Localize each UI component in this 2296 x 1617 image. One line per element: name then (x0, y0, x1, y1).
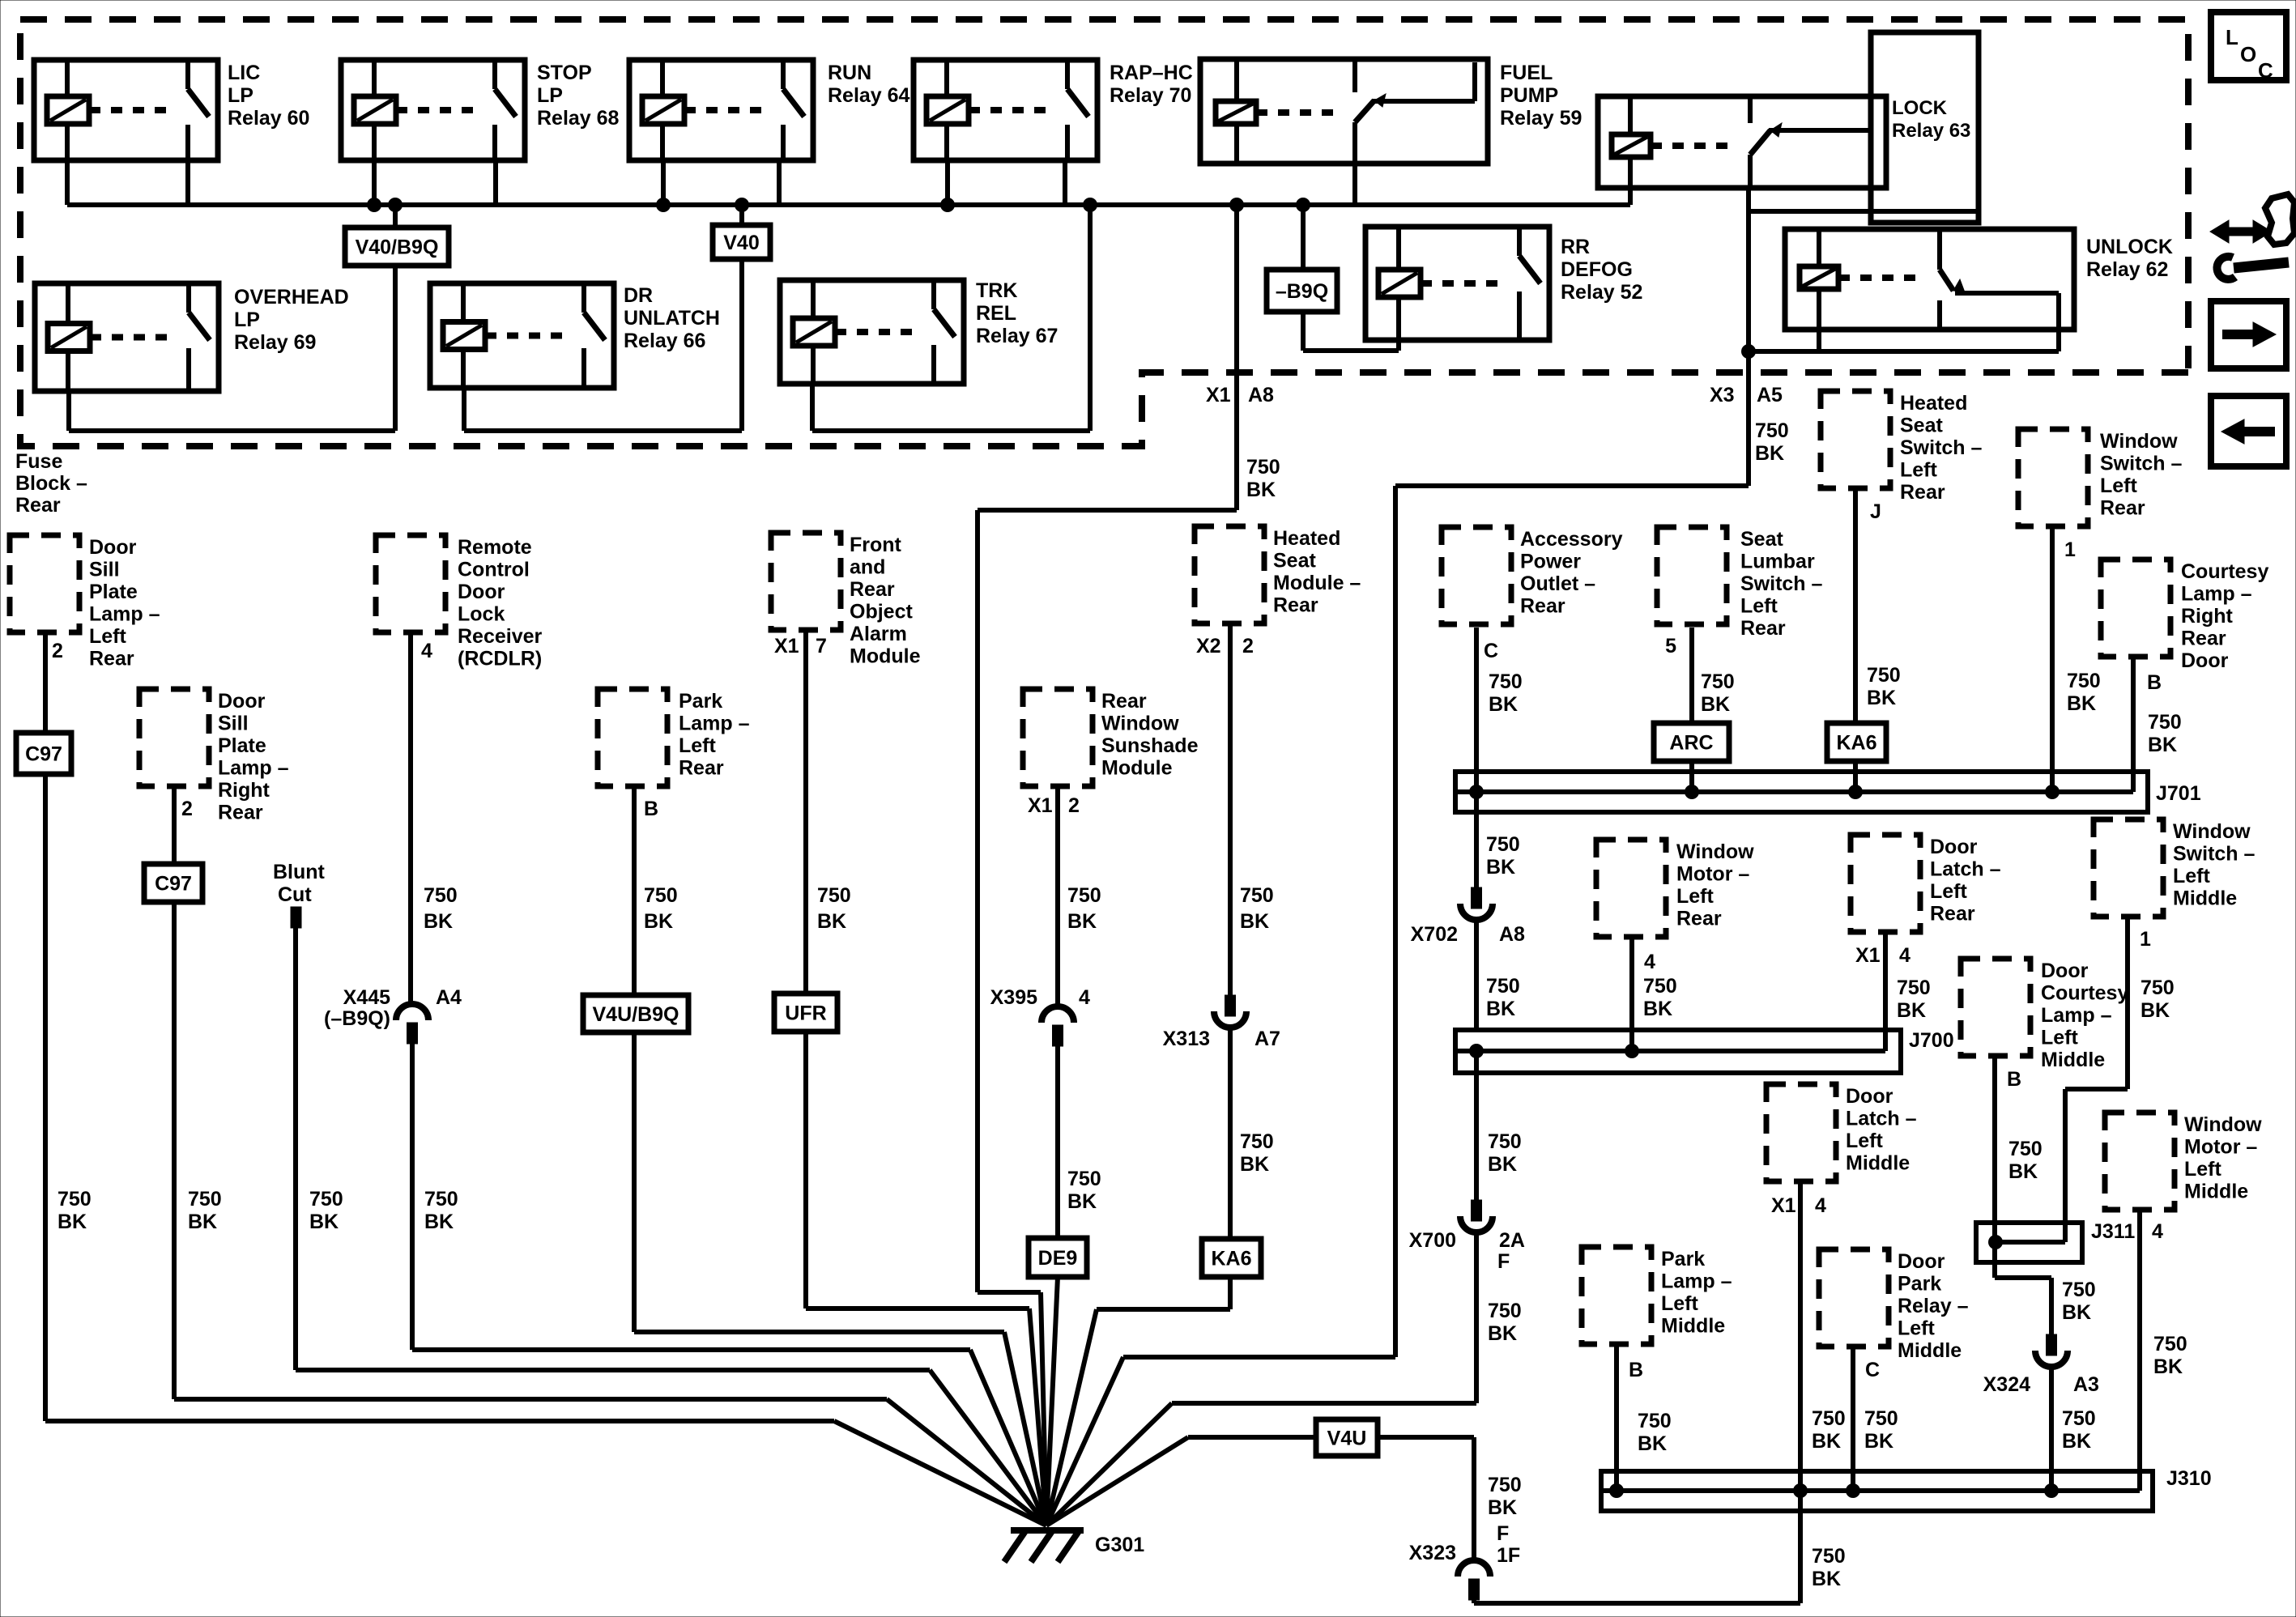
svg-text:2: 2 (1242, 635, 1254, 657)
svg-text:Right: Right (218, 779, 270, 802)
svg-text:–B9Q: –B9Q (1276, 280, 1328, 303)
svg-text:J700: J700 (1909, 1029, 1954, 1052)
svg-text:4: 4 (1899, 944, 1910, 967)
svg-text:UFR: UFR (785, 1002, 826, 1025)
svg-text:Left: Left (1898, 1317, 1936, 1340)
svg-text:Seat: Seat (1273, 550, 1316, 572)
svg-text:Rear: Rear (850, 578, 895, 601)
svg-text:Lamp –: Lamp – (1661, 1270, 1732, 1293)
svg-text:1: 1 (2140, 928, 2151, 951)
svg-text:BK: BK (1488, 1322, 1517, 1345)
svg-text:2: 2 (1068, 794, 1080, 817)
svg-text:J310: J310 (2166, 1467, 2212, 1490)
svg-text:Middle: Middle (2041, 1049, 2105, 1071)
svg-text:PUMP: PUMP (1500, 84, 1558, 107)
svg-text:BK: BK (644, 910, 673, 933)
svg-text:Middle: Middle (2173, 887, 2237, 910)
svg-text:750: 750 (1812, 1545, 1846, 1568)
svg-text:Heated: Heated (1273, 527, 1340, 550)
svg-text:BK: BK (1867, 687, 1896, 709)
svg-text:A5: A5 (1757, 384, 1783, 406)
svg-text:(RCDLR): (RCDLR) (458, 648, 542, 670)
svg-text:B: B (1629, 1359, 1643, 1381)
svg-text:750: 750 (1867, 664, 1901, 687)
svg-text:Fuse: Fuse (15, 450, 62, 473)
svg-text:DE9: DE9 (1038, 1247, 1078, 1270)
svg-text:X1: X1 (774, 635, 799, 657)
svg-text:BK: BK (1755, 442, 1784, 465)
svg-text:Power: Power (1520, 551, 1581, 573)
svg-text:Rear: Rear (1740, 617, 1786, 640)
svg-text:750: 750 (1701, 670, 1735, 693)
svg-text:Window: Window (2173, 820, 2251, 843)
svg-text:750: 750 (1488, 1130, 1522, 1153)
svg-text:BK: BK (1864, 1430, 1893, 1453)
svg-text:Relay 63: Relay 63 (1892, 120, 1970, 142)
svg-text:Relay 64: Relay 64 (828, 84, 910, 107)
svg-text:O: O (2240, 42, 2256, 66)
svg-text:Park: Park (679, 690, 722, 713)
svg-text:RR: RR (1561, 236, 1590, 258)
svg-text:BK: BK (1489, 693, 1518, 716)
svg-text:Door: Door (2041, 960, 2089, 982)
svg-text:Door: Door (1846, 1085, 1893, 1108)
svg-text:Switch –: Switch – (2173, 843, 2256, 866)
svg-text:Relay 59: Relay 59 (1500, 107, 1582, 130)
svg-text:Block –: Block – (15, 472, 87, 495)
svg-text:750: 750 (644, 884, 678, 907)
svg-text:Relay –: Relay – (1898, 1295, 1969, 1317)
svg-text:750: 750 (1812, 1407, 1846, 1430)
svg-text:750: 750 (2062, 1279, 2096, 1301)
svg-text:KA6: KA6 (1836, 732, 1876, 755)
svg-text:Object: Object (850, 601, 913, 623)
svg-text:Left: Left (2173, 865, 2211, 887)
svg-text:750: 750 (1643, 975, 1677, 998)
svg-text:BK: BK (2062, 1301, 2091, 1324)
svg-text:Outlet –: Outlet – (1520, 572, 1595, 595)
svg-text:FUEL: FUEL (1500, 62, 1553, 84)
svg-text:V4U/B9Q: V4U/B9Q (593, 1003, 679, 1026)
svg-text:OVERHEAD: OVERHEAD (234, 286, 349, 309)
svg-text:Left: Left (2041, 1027, 2079, 1049)
svg-text:UNLOCK: UNLOCK (2086, 236, 2173, 258)
svg-text:X2: X2 (1196, 635, 1221, 657)
svg-text:Relay 62: Relay 62 (2086, 258, 2168, 281)
svg-text:2A: 2A (1499, 1229, 1525, 1252)
svg-text:750: 750 (1489, 670, 1523, 693)
svg-text:BK: BK (1486, 998, 1515, 1020)
svg-text:RUN: RUN (828, 62, 871, 84)
svg-text:Relay 67: Relay 67 (976, 325, 1058, 347)
svg-text:Middle: Middle (1846, 1152, 1910, 1175)
svg-text:Left: Left (1900, 459, 1938, 482)
svg-text:Module –: Module – (1273, 572, 1361, 594)
svg-text:C97: C97 (25, 743, 62, 766)
svg-text:BK: BK (817, 910, 846, 933)
svg-text:X395: X395 (990, 986, 1037, 1009)
svg-text:7: 7 (816, 635, 827, 657)
svg-text:J701: J701 (2156, 782, 2201, 805)
svg-text:Window: Window (2184, 1113, 2262, 1136)
svg-text:750: 750 (309, 1188, 343, 1211)
svg-text:Door: Door (2181, 649, 2229, 672)
svg-text:BK: BK (1486, 856, 1515, 879)
svg-text:A7: A7 (1254, 1028, 1280, 1050)
svg-text:BK: BK (58, 1211, 87, 1233)
svg-text:F: F (1497, 1522, 1509, 1545)
svg-text:J311: J311 (2091, 1220, 2135, 1243)
svg-text:J: J (1870, 500, 1881, 523)
svg-text:Rear: Rear (1273, 594, 1318, 617)
svg-text:Switch –: Switch – (2100, 453, 2183, 475)
svg-text:Door: Door (1898, 1250, 1945, 1273)
svg-text:X324: X324 (1983, 1373, 2030, 1396)
svg-text:BK: BK (424, 1211, 454, 1233)
svg-text:and: and (850, 556, 885, 579)
svg-text:X445: X445 (343, 986, 390, 1009)
svg-text:B: B (2007, 1068, 2021, 1091)
svg-text:Seat: Seat (1740, 528, 1783, 551)
svg-text:Middle: Middle (2184, 1181, 2248, 1203)
svg-text:Rear: Rear (2181, 628, 2226, 650)
svg-text:Park: Park (1898, 1273, 1941, 1296)
svg-text:Plate: Plate (218, 734, 266, 757)
svg-text:Switch –: Switch – (1740, 572, 1823, 595)
svg-text:750: 750 (1486, 833, 1520, 856)
svg-text:G301: G301 (1095, 1534, 1144, 1556)
svg-text:750: 750 (817, 884, 851, 907)
svg-text:LOCK: LOCK (1892, 97, 1948, 119)
svg-text:Rear: Rear (2100, 497, 2145, 520)
svg-text:4: 4 (2152, 1220, 2163, 1243)
svg-text:Heated: Heated (1900, 392, 1967, 415)
svg-text:Left: Left (1930, 880, 1968, 903)
svg-text:RAP–HC: RAP–HC (1110, 62, 1193, 84)
svg-text:X1: X1 (1855, 944, 1881, 967)
svg-text:C: C (2258, 58, 2273, 83)
svg-text:C97: C97 (155, 873, 192, 896)
svg-text:750: 750 (1864, 1407, 1898, 1430)
svg-text:X1: X1 (1028, 794, 1053, 817)
svg-text:Courtesy: Courtesy (2181, 560, 2268, 583)
svg-text:B: B (2147, 671, 2162, 694)
svg-text:X702: X702 (1411, 923, 1458, 946)
svg-text:BK: BK (2067, 692, 2096, 715)
svg-text:Door: Door (458, 581, 505, 603)
svg-text:X1: X1 (1771, 1194, 1796, 1217)
svg-text:750: 750 (1488, 1474, 1522, 1496)
svg-text:750: 750 (1755, 419, 1789, 442)
svg-text:Middle: Middle (1661, 1315, 1725, 1338)
svg-text:Rear: Rear (218, 802, 263, 824)
svg-text:(–B9Q): (–B9Q) (324, 1007, 390, 1030)
svg-text:ARC: ARC (1669, 732, 1713, 755)
svg-text:A8: A8 (1499, 923, 1525, 946)
svg-text:Left: Left (2184, 1158, 2222, 1181)
svg-text:X3: X3 (1710, 384, 1735, 406)
svg-text:Motor –: Motor – (2184, 1136, 2257, 1159)
svg-text:F: F (1497, 1250, 1510, 1273)
svg-text:Sill: Sill (218, 713, 249, 735)
svg-text:750: 750 (1067, 884, 1101, 907)
svg-text:750: 750 (2148, 711, 2182, 734)
svg-text:BK: BK (2062, 1430, 2091, 1453)
svg-text:Window: Window (2100, 430, 2178, 453)
svg-text:Control: Control (458, 559, 530, 581)
svg-text:Door: Door (1930, 836, 1978, 858)
svg-text:TRK: TRK (976, 279, 1017, 302)
svg-text:Rear: Rear (1101, 690, 1147, 713)
svg-text:Sunshade: Sunshade (1101, 734, 1199, 757)
svg-text:Blunt: Blunt (273, 861, 326, 883)
svg-text:Relay 68: Relay 68 (537, 107, 620, 130)
svg-text:Lamp –: Lamp – (89, 603, 160, 626)
svg-text:Relay 66: Relay 66 (624, 330, 705, 352)
svg-text:V4U: V4U (1327, 1428, 1367, 1450)
svg-text:Motor –: Motor – (1676, 863, 1749, 886)
svg-text:BK: BK (1067, 910, 1097, 933)
svg-text:Relay 69: Relay 69 (234, 331, 316, 354)
svg-text:Lamp –: Lamp – (2041, 1004, 2112, 1027)
svg-text:STOP: STOP (537, 62, 592, 84)
svg-text:Door: Door (89, 536, 137, 559)
svg-text:750: 750 (188, 1188, 222, 1211)
svg-text:2: 2 (181, 798, 193, 820)
svg-text:Remote: Remote (458, 536, 532, 559)
svg-text:750: 750 (2141, 977, 2175, 999)
svg-text:UNLATCH: UNLATCH (624, 307, 720, 330)
svg-text:Left: Left (2100, 474, 2138, 497)
svg-text:DEFOG: DEFOG (1561, 258, 1633, 281)
svg-text:KA6: KA6 (1211, 1248, 1251, 1270)
svg-text:BK: BK (1488, 1153, 1517, 1176)
svg-text:Front: Front (850, 534, 902, 556)
svg-text:750: 750 (2062, 1407, 2096, 1430)
svg-text:REL: REL (976, 302, 1016, 325)
svg-text:4: 4 (1644, 951, 1655, 973)
svg-text:Module: Module (1101, 757, 1173, 780)
svg-text:750: 750 (1240, 884, 1274, 907)
svg-text:Left: Left (679, 734, 717, 757)
svg-text:4: 4 (1079, 986, 1090, 1009)
svg-text:Switch –: Switch – (1900, 436, 1983, 459)
svg-text:750: 750 (424, 1188, 458, 1211)
svg-text:Seat: Seat (1900, 415, 1943, 437)
svg-text:Lamp –: Lamp – (2181, 583, 2252, 606)
svg-text:X323: X323 (1409, 1542, 1456, 1564)
svg-text:5: 5 (1665, 635, 1676, 657)
svg-text:BK: BK (1638, 1432, 1667, 1455)
svg-text:BK: BK (1246, 479, 1276, 501)
svg-text:Receiver: Receiver (458, 625, 543, 648)
svg-text:LP: LP (537, 84, 563, 107)
svg-text:LIC: LIC (228, 62, 260, 84)
svg-text:BK: BK (2141, 999, 2170, 1022)
svg-text:BK: BK (1488, 1496, 1517, 1519)
svg-text:Rear: Rear (679, 757, 724, 780)
svg-text:750: 750 (1067, 1168, 1101, 1190)
svg-text:Module: Module (850, 645, 921, 668)
svg-text:Left: Left (1661, 1292, 1699, 1315)
svg-text:Rear: Rear (1676, 908, 1722, 930)
svg-text:Sill: Sill (89, 559, 120, 581)
svg-text:1F: 1F (1497, 1544, 1520, 1567)
svg-text:Cut: Cut (278, 883, 312, 906)
svg-text:750: 750 (2067, 670, 2101, 692)
svg-text:BK: BK (1240, 910, 1269, 933)
svg-text:Window: Window (1101, 713, 1179, 735)
svg-text:X313: X313 (1163, 1028, 1210, 1050)
svg-text:Alarm: Alarm (850, 623, 907, 645)
svg-text:X1: X1 (1206, 384, 1231, 406)
svg-text:B: B (644, 798, 658, 820)
svg-text:BK: BK (2008, 1160, 2038, 1183)
svg-text:V40/B9Q: V40/B9Q (356, 236, 439, 259)
svg-text:Rear: Rear (1900, 481, 1945, 504)
svg-text:Left: Left (89, 625, 127, 648)
svg-text:1: 1 (2064, 538, 2076, 561)
svg-text:Right: Right (2181, 605, 2234, 628)
svg-text:BK: BK (2153, 1355, 2183, 1378)
svg-text:4: 4 (421, 640, 432, 662)
svg-text:Courtesy: Courtesy (2041, 982, 2128, 1005)
svg-text:Middle: Middle (1898, 1339, 1962, 1362)
svg-text:Rear: Rear (89, 648, 134, 670)
svg-text:BK: BK (1701, 693, 1730, 716)
svg-text:BK: BK (1240, 1153, 1269, 1176)
svg-text:BK: BK (1812, 1568, 1841, 1590)
svg-text:BK: BK (1067, 1190, 1097, 1213)
svg-text:BK: BK (1812, 1430, 1841, 1453)
svg-text:BK: BK (2148, 734, 2177, 756)
svg-text:BK: BK (309, 1211, 339, 1233)
svg-text:Relay 70: Relay 70 (1110, 84, 1191, 107)
svg-text:Lock: Lock (458, 603, 505, 626)
svg-text:Latch –: Latch – (1846, 1108, 1917, 1130)
svg-text:BK: BK (1643, 998, 1672, 1020)
svg-text:750: 750 (58, 1188, 92, 1211)
svg-text:Window: Window (1676, 840, 1754, 863)
svg-text:Left: Left (1846, 1130, 1884, 1152)
svg-text:BK: BK (188, 1211, 217, 1233)
svg-text:Lamp –: Lamp – (218, 757, 289, 780)
svg-text:750: 750 (2153, 1333, 2187, 1355)
svg-text:Door: Door (218, 690, 266, 713)
svg-text:Relay 60: Relay 60 (228, 107, 309, 130)
svg-text:L: L (2226, 25, 2238, 49)
svg-text:A4: A4 (436, 986, 462, 1009)
svg-text:Lamp –: Lamp – (679, 713, 750, 735)
svg-text:750: 750 (1246, 456, 1280, 479)
svg-text:A3: A3 (2073, 1373, 2099, 1396)
svg-text:4: 4 (1815, 1194, 1826, 1217)
svg-text:Latch –: Latch – (1930, 858, 2001, 881)
svg-text:Lumbar: Lumbar (1740, 551, 1815, 573)
svg-text:Plate: Plate (89, 581, 138, 603)
svg-text:750: 750 (2008, 1138, 2043, 1160)
svg-text:BK: BK (1897, 999, 1926, 1022)
svg-text:X700: X700 (1409, 1229, 1456, 1252)
svg-text:Park: Park (1661, 1248, 1705, 1270)
svg-text:750: 750 (1486, 975, 1520, 998)
svg-text:LP: LP (234, 309, 260, 331)
svg-text:C: C (1865, 1359, 1880, 1381)
svg-text:750: 750 (1638, 1410, 1672, 1432)
svg-text:750: 750 (1897, 977, 1931, 999)
svg-text:BK: BK (424, 910, 453, 933)
svg-text:Left: Left (1676, 885, 1715, 908)
svg-text:Rear: Rear (1930, 903, 1975, 926)
svg-text:750: 750 (424, 884, 458, 907)
svg-text:Left: Left (1740, 595, 1778, 618)
svg-text:Relay 52: Relay 52 (1561, 281, 1642, 304)
svg-text:750: 750 (1488, 1300, 1522, 1322)
svg-text:DR: DR (624, 284, 653, 307)
svg-text:2: 2 (52, 640, 63, 662)
svg-text:Rear: Rear (1520, 595, 1565, 618)
svg-text:750: 750 (1240, 1130, 1274, 1153)
svg-text:Accessory: Accessory (1520, 528, 1623, 551)
svg-text:C: C (1484, 640, 1498, 662)
svg-text:LP: LP (228, 84, 253, 107)
svg-text:V40: V40 (723, 232, 759, 254)
svg-text:A8: A8 (1248, 384, 1274, 406)
svg-text:Rear: Rear (15, 494, 61, 517)
